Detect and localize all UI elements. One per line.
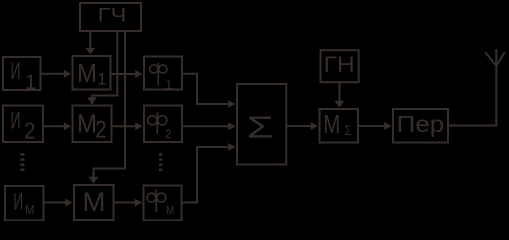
wire Ф1 to Σ xyxy=(182,74,230,104)
wire Σ to МΣ xyxy=(286,125,312,127)
ellipsis dots Ф column xyxy=(159,153,162,155)
box ИМ (source M) xyxy=(5,186,44,221)
svg-text:М: М xyxy=(77,109,97,139)
box ФМ (filter M) xyxy=(144,186,182,221)
box МΣ (group modulator) xyxy=(320,109,359,143)
svg-text:2: 2 xyxy=(24,118,35,144)
svg-text:М: М xyxy=(166,204,174,218)
wire М2 to Ф2 xyxy=(112,125,137,127)
wire МΣ to Пер xyxy=(358,125,386,127)
arrowhead into Σ bottom input xyxy=(228,143,235,151)
box Пер (transmitter) xyxy=(393,109,448,143)
box М1 (modulator 1) xyxy=(73,56,111,90)
svg-text:М: М xyxy=(83,187,106,217)
wire М1 to Ф1 xyxy=(111,73,137,75)
wire ГН to МΣ xyxy=(339,82,341,104)
svg-text:1: 1 xyxy=(97,71,106,89)
arrowhead into МΣ left xyxy=(311,122,318,130)
wire ФМ to Σ xyxy=(182,147,230,203)
svg-text:Σ: Σ xyxy=(345,122,351,138)
arrowhead into МΣ top xyxy=(335,101,345,108)
arrowhead into М2 left xyxy=(64,122,71,130)
box Ф2 (filter 2) xyxy=(144,106,182,143)
ellipsis dots И column xyxy=(21,153,25,155)
wire Пер to antenna xyxy=(448,49,496,126)
svg-text:М: М xyxy=(77,58,97,88)
arrowhead into Пер xyxy=(384,122,391,130)
antenna right arm xyxy=(497,52,505,66)
box ГН (pilot generator) xyxy=(321,50,359,82)
wire ГЧ to М xyxy=(94,31,126,183)
box Σ (summator) xyxy=(237,84,286,165)
svg-text:ГЧ: ГЧ xyxy=(98,6,127,27)
svg-text:И: И xyxy=(11,58,21,85)
arrowhead into М top xyxy=(89,177,99,184)
label ФМ glyph xyxy=(147,190,166,213)
wire И1 to М1 xyxy=(41,73,66,75)
wire И2 to М2 xyxy=(43,125,65,127)
label Ф2 glyph xyxy=(148,112,167,133)
svg-text:2: 2 xyxy=(95,117,106,144)
arrowhead into Σ top input xyxy=(228,100,235,108)
arrowhead into Σ middle input xyxy=(228,122,235,130)
wire ГЧ to М2 xyxy=(92,31,117,104)
svg-text:Пер: Пер xyxy=(397,111,445,137)
svg-text:И: И xyxy=(13,189,23,216)
arrowhead into Ф2 xyxy=(135,122,142,130)
svg-text:ГН: ГН xyxy=(324,52,355,77)
svg-text:М: М xyxy=(25,202,35,217)
svg-text:1: 1 xyxy=(25,71,37,94)
box ГЧ (carrier frequency generator) xyxy=(80,3,141,31)
arrowhead into Ф1 xyxy=(135,70,142,78)
svg-text:2: 2 xyxy=(165,127,172,141)
wire М to ФМ xyxy=(114,202,137,204)
arrowhead into ФМ xyxy=(135,199,142,207)
wire ИМ to М xyxy=(44,202,67,204)
box И2 (source 2) xyxy=(3,106,43,143)
label Ф1 glyph xyxy=(150,63,167,86)
svg-text:И: И xyxy=(11,108,21,135)
antenna left arm xyxy=(485,52,496,65)
svg-text:М: М xyxy=(323,109,340,139)
arrowhead into М left xyxy=(65,199,72,207)
wire ГЧ to М1 xyxy=(89,31,91,50)
svg-text:Σ: Σ xyxy=(247,109,275,144)
wire Ф2 to Σ xyxy=(182,125,230,127)
arrowhead into М2 top xyxy=(87,97,97,104)
box М2 (modulator 2) xyxy=(73,106,112,143)
box М (modulator M) xyxy=(74,185,114,220)
arrowhead into М1 top xyxy=(85,48,95,55)
arrowhead into М1 left xyxy=(64,70,71,78)
svg-text:1: 1 xyxy=(165,77,172,92)
box И1 (source 1) xyxy=(3,57,41,90)
box Ф1 (filter 1) xyxy=(144,57,182,90)
